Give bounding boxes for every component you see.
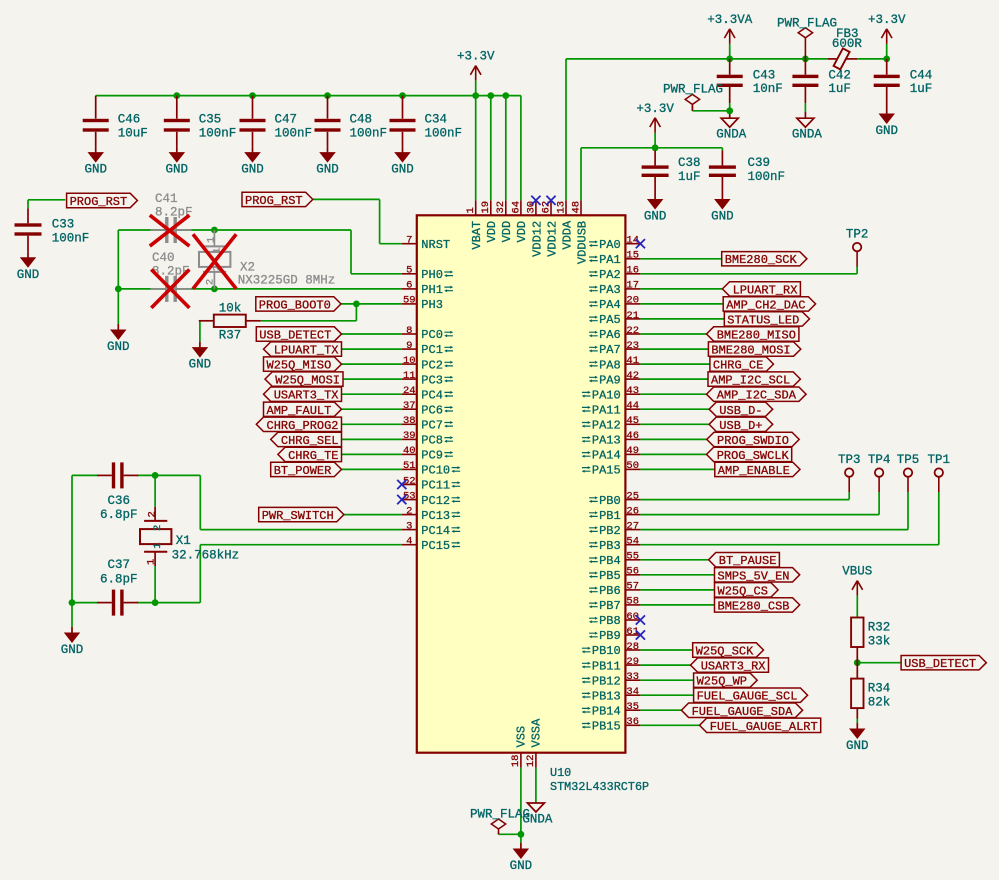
resistor R32 33k bbox=[851, 618, 890, 663]
svg-text:PROG_RST: PROG_RST bbox=[70, 195, 128, 209]
wires right PA labels bbox=[640, 259, 724, 470]
svg-text:VSSA: VSSA bbox=[529, 718, 543, 748]
DNP cross over C40 bbox=[151, 270, 189, 308]
capacitor C34 bbox=[390, 96, 463, 147]
wire PH1 net (crystal lower) bbox=[118, 230, 402, 324]
capacitor C33 bbox=[15, 208, 90, 252]
svg-text:VDD12: VDD12 bbox=[530, 221, 544, 257]
label USB_DETECT bbox=[256, 327, 341, 343]
right pin 43 PA10 bbox=[582, 385, 641, 402]
svg-text:32: 32 bbox=[495, 201, 507, 214]
right pin 42 PA9 bbox=[589, 370, 641, 387]
svg-text:PC12: PC12 bbox=[421, 494, 450, 508]
svg-text:VDDUSB: VDDUSB bbox=[575, 221, 589, 264]
svg-text:C37: C37 bbox=[108, 558, 131, 572]
svg-text:24: 24 bbox=[403, 385, 416, 397]
svg-text:C33: C33 bbox=[52, 218, 75, 232]
right pin 22 PA6 bbox=[589, 325, 641, 342]
ground under C39 bbox=[711, 194, 734, 224]
svg-text:PA10: PA10 bbox=[592, 388, 621, 402]
right pin 41 PA8 bbox=[589, 355, 641, 372]
svg-text:TP2: TP2 bbox=[846, 228, 869, 242]
svg-text:1uF: 1uF bbox=[678, 170, 701, 184]
right pin 26 PB1 bbox=[589, 505, 641, 522]
svg-text:GND: GND bbox=[166, 163, 189, 177]
label BME280_CSB bbox=[715, 598, 800, 614]
svg-text:VBUS: VBUS bbox=[842, 565, 872, 579]
svg-text:PB9: PB9 bbox=[599, 629, 621, 643]
svg-text:NX3225GD 8MHz: NX3225GD 8MHz bbox=[238, 274, 336, 288]
right pin 14 PA0 bbox=[589, 235, 641, 252]
wire PROG_BOOT0 / R37 to PH3 pin 59 bbox=[261, 304, 402, 321]
left pin 5 PH0 bbox=[402, 265, 453, 282]
capacitor C38 bbox=[642, 151, 701, 194]
left pin 38 PC7 bbox=[402, 415, 453, 432]
DNP cross over C41 bbox=[150, 215, 190, 246]
svg-text:7: 7 bbox=[406, 235, 412, 247]
svg-text:BME280_MOSI: BME280_MOSI bbox=[711, 344, 790, 358]
svg-text:PA9: PA9 bbox=[599, 373, 621, 387]
right pin 44 PA11 bbox=[582, 400, 641, 417]
svg-text:PA5: PA5 bbox=[599, 313, 621, 327]
svg-text:STATUS_LED: STATUS_LED bbox=[727, 313, 799, 327]
svg-text:9: 9 bbox=[406, 340, 412, 352]
right pin 17 PA3 bbox=[589, 280, 641, 297]
wire PH0 net (crystal upper) bbox=[118, 230, 402, 274]
svg-text:C40: C40 bbox=[152, 251, 175, 265]
svg-text:57: 57 bbox=[626, 581, 639, 593]
svg-text:C41: C41 bbox=[155, 192, 178, 206]
svg-text:LPUART_TX: LPUART_TX bbox=[274, 344, 339, 358]
svg-text:PA8: PA8 bbox=[599, 358, 621, 372]
right pin 45 PA12 bbox=[582, 415, 641, 432]
ground GNDA under VSSA bbox=[522, 803, 553, 827]
svg-text:PC2: PC2 bbox=[421, 358, 443, 372]
svg-text:C34: C34 bbox=[425, 113, 448, 127]
left pin 24 PC4 bbox=[402, 385, 453, 402]
svg-text:45: 45 bbox=[626, 415, 639, 427]
wire NRST net to C33 and PROG_RST bbox=[28, 200, 65, 209]
svg-text:46: 46 bbox=[626, 430, 639, 442]
label FUEL_GAUGE_ALRT bbox=[700, 718, 821, 734]
label STATUS_LED bbox=[724, 312, 809, 328]
svg-text:TP4: TP4 bbox=[868, 453, 891, 467]
power flag left of C43 bbox=[663, 83, 723, 111]
svg-text:39: 39 bbox=[403, 430, 416, 442]
svg-text:100nF: 100nF bbox=[275, 127, 313, 141]
left pin 53 PC12 bbox=[402, 490, 461, 507]
svg-text:GND: GND bbox=[391, 163, 414, 177]
svg-text:R37: R37 bbox=[219, 329, 242, 343]
wire +3.3VA rail to VDDA pin 13 bbox=[566, 59, 887, 200]
svg-text:100nF: 100nF bbox=[748, 170, 786, 184]
svg-text:42: 42 bbox=[626, 370, 639, 382]
svg-text:U10: U10 bbox=[550, 766, 571, 780]
svg-text:USB_DETECT: USB_DETECT bbox=[904, 657, 976, 671]
svg-text:54: 54 bbox=[626, 536, 639, 548]
svg-text:C35: C35 bbox=[199, 113, 222, 127]
svg-text:FUEL_GAUGE_ALRT: FUEL_GAUGE_ALRT bbox=[710, 720, 818, 734]
svg-text:18: 18 bbox=[510, 755, 522, 768]
wires left GPIO labels to PC pins bbox=[342, 334, 402, 469]
label W25Q_CS bbox=[715, 583, 779, 599]
svg-text:C42: C42 bbox=[828, 69, 851, 83]
svg-text:8: 8 bbox=[406, 325, 412, 337]
svg-text:25: 25 bbox=[626, 490, 639, 502]
svg-text:100nF: 100nF bbox=[52, 232, 90, 246]
svg-text:PC0: PC0 bbox=[421, 328, 443, 342]
svg-text:PC15: PC15 bbox=[421, 539, 450, 553]
top pin 32 VDD bbox=[495, 200, 514, 242]
svg-text:X2: X2 bbox=[240, 261, 255, 275]
svg-text:10k: 10k bbox=[219, 302, 242, 316]
label BME280_MISO bbox=[707, 327, 799, 343]
svg-text:PA15: PA15 bbox=[592, 464, 621, 478]
svg-text:51: 51 bbox=[403, 460, 416, 472]
label BME280_MOSI bbox=[708, 342, 800, 358]
svg-text:PC10: PC10 bbox=[421, 464, 450, 478]
svg-text:PB3: PB3 bbox=[599, 539, 621, 553]
svg-text:56: 56 bbox=[626, 566, 639, 578]
svg-text:PA1: PA1 bbox=[599, 253, 621, 267]
svg-text:10uF: 10uF bbox=[118, 127, 148, 141]
svg-text:PB2: PB2 bbox=[599, 524, 621, 538]
right pin 16 PA2 bbox=[589, 265, 641, 282]
left pin 40 PC9 bbox=[402, 445, 453, 462]
junction PROG_BOOT0 node bbox=[353, 301, 360, 308]
svg-text:C38: C38 bbox=[678, 156, 701, 170]
svg-text:AMP_CH2_DAC: AMP_CH2_DAC bbox=[726, 298, 805, 312]
label CHRG_TE bbox=[278, 447, 342, 463]
capacitor C36 bbox=[97, 462, 138, 522]
svg-text:GND: GND bbox=[875, 124, 898, 138]
svg-text:33k: 33k bbox=[868, 635, 891, 649]
svg-text:VDD12: VDD12 bbox=[545, 221, 559, 257]
label USB_D+ bbox=[709, 417, 773, 433]
svg-text:VDD: VDD bbox=[515, 221, 529, 243]
svg-text:1: 1 bbox=[145, 559, 157, 565]
wire PA2 to TP2 bbox=[640, 266, 857, 274]
IC reference U10 bbox=[550, 766, 571, 780]
svg-text:PB7: PB7 bbox=[599, 599, 621, 613]
ferrite bead FB3 600R bbox=[828, 27, 863, 69]
svg-text:W25Q_WP: W25Q_WP bbox=[697, 675, 747, 689]
no-connect X at PA0 bbox=[636, 239, 645, 248]
label USART3_RX bbox=[691, 658, 769, 674]
power +3.3VA bbox=[707, 13, 753, 59]
label AMP_I2C_SCL bbox=[708, 372, 800, 388]
svg-text:PB15: PB15 bbox=[592, 720, 621, 734]
svg-text:PWR_FLAG: PWR_FLAG bbox=[777, 16, 837, 30]
junctions crystal X2 nets bbox=[115, 227, 218, 293]
no-connect X at VDD12 pin62 bbox=[546, 196, 555, 205]
IC U10 STM32L433RCT6P bbox=[402, 200, 649, 794]
label BT_PAUSE bbox=[709, 553, 780, 569]
svg-text:6.8pF: 6.8pF bbox=[100, 572, 138, 586]
svg-text:PROG_BOOT0: PROG_BOOT0 bbox=[259, 298, 331, 312]
IC body bbox=[417, 215, 626, 752]
wire VBUS divider node to USB_DETECT label bbox=[857, 663, 901, 723]
svg-text:GND: GND bbox=[61, 643, 84, 657]
svg-text:GND: GND bbox=[316, 163, 339, 177]
svg-text:PA13: PA13 bbox=[592, 434, 621, 448]
svg-text:1uF: 1uF bbox=[828, 82, 851, 96]
label PROG_SWDIO bbox=[707, 432, 799, 448]
svg-text:PA2: PA2 bbox=[599, 268, 621, 282]
svg-text:35: 35 bbox=[626, 701, 639, 713]
svg-text:48: 48 bbox=[570, 201, 582, 214]
capacitor C44 bbox=[874, 59, 933, 108]
svg-text:50: 50 bbox=[626, 460, 639, 472]
no-connect X at PC11 bbox=[397, 480, 406, 489]
top pin 13 VDDA bbox=[555, 200, 574, 249]
svg-text:GND: GND bbox=[846, 739, 869, 753]
svg-text:4: 4 bbox=[406, 536, 412, 548]
svg-text:PROG_RST: PROG_RST bbox=[245, 194, 303, 208]
capacitor C43 bbox=[717, 59, 783, 103]
label CHRG_CE bbox=[710, 357, 774, 373]
svg-text:22: 22 bbox=[626, 325, 639, 337]
svg-text:PROG_SWDIO: PROG_SWDIO bbox=[717, 434, 789, 448]
wire PWR_SWITCH to PC13 bbox=[344, 514, 402, 516]
svg-text:6.8pF: 6.8pF bbox=[100, 508, 138, 522]
svg-text:26: 26 bbox=[626, 505, 639, 517]
svg-text:32.768kHz: 32.768kHz bbox=[172, 549, 240, 563]
svg-text:TP3: TP3 bbox=[838, 453, 861, 467]
right pin 58 PB7 bbox=[589, 596, 641, 613]
svg-text:PC13: PC13 bbox=[421, 509, 450, 523]
svg-text:82k: 82k bbox=[868, 696, 891, 710]
testpoint TP1 bbox=[928, 453, 951, 492]
svg-text:VDD: VDD bbox=[485, 221, 499, 243]
svg-text:CHRG_PROG2: CHRG_PROG2 bbox=[267, 419, 339, 433]
wire PROG_RST to NRST pin 7 bbox=[313, 199, 402, 243]
power flag at VSS bbox=[470, 808, 530, 835]
label AMP_FAULT bbox=[264, 402, 342, 418]
label PROG_BOOT0 bbox=[256, 297, 341, 313]
svg-text:R34: R34 bbox=[868, 682, 891, 696]
left pin 4 PC15 bbox=[402, 536, 461, 553]
svg-text:USB_D+: USB_D+ bbox=[719, 419, 762, 433]
svg-text:PB14: PB14 bbox=[592, 705, 621, 719]
crystal X2 NX3225GD (DNP) bbox=[199, 230, 335, 289]
capacitor C40 (DNP) bbox=[151, 251, 192, 302]
svg-text:AMP_ENABLE: AMP_ENABLE bbox=[718, 464, 790, 478]
svg-text:40: 40 bbox=[403, 445, 416, 457]
right pin 56 PB5 bbox=[589, 566, 641, 583]
testpoint TP5 bbox=[897, 453, 920, 492]
wire C42 to GNDA bbox=[804, 103, 806, 118]
wire VSS to GND with PWR_FLAG bbox=[499, 768, 521, 843]
svg-text:PC1: PC1 bbox=[421, 343, 443, 357]
left pin 6 PH1 bbox=[402, 280, 453, 297]
label FUEL_GAUGE_SDA bbox=[681, 703, 802, 719]
ground GNDA under C42 bbox=[792, 118, 823, 142]
svg-text:BT_PAUSE: BT_PAUSE bbox=[719, 554, 777, 568]
svg-text:1: 1 bbox=[152, 542, 164, 548]
svg-text:PWR_FLAG: PWR_FLAG bbox=[663, 83, 723, 97]
svg-text:VSS: VSS bbox=[514, 726, 528, 748]
svg-text:PC7: PC7 bbox=[421, 419, 443, 433]
svg-text:33: 33 bbox=[626, 671, 639, 683]
svg-text:58: 58 bbox=[626, 596, 639, 608]
svg-text:PWR_SWITCH: PWR_SWITCH bbox=[262, 509, 334, 523]
power +3.3V at C38 bbox=[636, 102, 674, 133]
svg-text:10: 10 bbox=[403, 355, 416, 367]
no-connect X at PB9 bbox=[636, 630, 645, 639]
svg-text:PA0: PA0 bbox=[599, 238, 621, 252]
junction C43/PWR_FLAG bbox=[726, 107, 733, 114]
right pin 57 PB6 bbox=[589, 581, 641, 599]
svg-text:USART3_TX: USART3_TX bbox=[274, 389, 339, 403]
left pin 51 PC10 bbox=[402, 460, 461, 477]
ground under X2 net bbox=[107, 324, 130, 354]
svg-text:2: 2 bbox=[152, 525, 164, 531]
left pin 9 PC1 bbox=[402, 340, 453, 357]
svg-text:CHRG_CE: CHRG_CE bbox=[713, 359, 763, 373]
left pin 3 PC14 bbox=[402, 520, 461, 538]
power +3.3V top rail bbox=[457, 50, 495, 96]
left pin 10 PC2 bbox=[402, 355, 453, 372]
capacitor C42 bbox=[792, 59, 851, 103]
svg-text:19: 19 bbox=[480, 201, 492, 214]
top pin 19 VDD bbox=[480, 200, 499, 242]
power +3.3V right bbox=[868, 13, 906, 59]
svg-text:PB4: PB4 bbox=[599, 554, 621, 568]
svg-text:USART3_RX: USART3_RX bbox=[701, 660, 766, 674]
svg-text:59: 59 bbox=[403, 295, 416, 307]
svg-text:VBAT: VBAT bbox=[470, 221, 484, 250]
svg-text:C46: C46 bbox=[118, 113, 141, 127]
svg-text:PC14: PC14 bbox=[421, 524, 450, 538]
testpoint TP4 bbox=[868, 453, 891, 492]
svg-text:VDDA: VDDA bbox=[560, 220, 574, 250]
top pin 48 VDDUSB bbox=[570, 200, 589, 264]
svg-text:BME280_CSB: BME280_CSB bbox=[718, 599, 790, 613]
svg-text:20: 20 bbox=[626, 295, 639, 307]
testpoint TP3 bbox=[838, 453, 861, 492]
svg-text:GND: GND bbox=[189, 358, 212, 372]
svg-text:41: 41 bbox=[626, 355, 639, 367]
label LPUART_RX bbox=[722, 282, 800, 298]
svg-text:PA7: PA7 bbox=[599, 343, 621, 357]
svg-text:36: 36 bbox=[626, 716, 639, 728]
label W25Q_MISO bbox=[264, 357, 342, 373]
label AMP_CH2_DAC bbox=[723, 297, 815, 313]
svg-text:13: 13 bbox=[555, 201, 567, 214]
right pin 54 PB3 bbox=[589, 536, 641, 553]
svg-text:CHRG_SEL: CHRG_SEL bbox=[281, 434, 339, 448]
svg-text:GND: GND bbox=[644, 210, 667, 224]
svg-text:17: 17 bbox=[626, 280, 639, 292]
capacitor C47 bbox=[240, 96, 313, 147]
ground under C38 bbox=[644, 194, 667, 224]
svg-text:38: 38 bbox=[403, 415, 416, 427]
svg-text:34: 34 bbox=[626, 686, 639, 698]
svg-text:6: 6 bbox=[406, 280, 412, 292]
DNP cross over X2 bbox=[193, 234, 236, 289]
label PROG_SWCLK bbox=[707, 447, 792, 463]
svg-text:AMP_I2C_SDA: AMP_I2C_SDA bbox=[717, 389, 797, 403]
wire X1 crystal upper net to PC14 bbox=[72, 475, 402, 529]
ground under C46 bbox=[84, 147, 107, 177]
svg-text:PH3: PH3 bbox=[421, 298, 443, 312]
svg-text:+3.3V: +3.3V bbox=[868, 13, 906, 27]
left pin 52 PC11 bbox=[402, 475, 461, 492]
svg-text:23: 23 bbox=[626, 340, 639, 352]
junctions on +3.3V rail bbox=[173, 92, 509, 99]
svg-text:2: 2 bbox=[146, 511, 158, 517]
svg-text:PC3: PC3 bbox=[421, 373, 443, 387]
wire VDDUSB rail to pin 48 bbox=[581, 133, 722, 201]
svg-text:C43: C43 bbox=[753, 69, 776, 83]
label W25Q_WP bbox=[694, 673, 758, 689]
svg-text:USB_D-: USB_D- bbox=[719, 404, 762, 418]
svg-text:2: 2 bbox=[406, 505, 412, 517]
label PROG_RST right bbox=[242, 192, 313, 208]
svg-text:62: 62 bbox=[540, 201, 552, 214]
wire C43 GNDA net with PWR_FLAG bbox=[692, 103, 729, 118]
capacitor C39 bbox=[709, 151, 785, 194]
label AMP_ENABLE bbox=[715, 462, 800, 478]
svg-text:PC4: PC4 bbox=[421, 388, 443, 402]
power VBUS bbox=[842, 565, 872, 618]
crystal X1 32.768kHz bbox=[140, 507, 239, 566]
svg-text:PROG_SWCLK: PROG_SWCLK bbox=[717, 449, 790, 463]
label CHRG_PROG2 bbox=[256, 417, 341, 433]
right pin 46 PA13 bbox=[582, 430, 641, 447]
svg-text:W25Q_SCK: W25Q_SCK bbox=[696, 645, 754, 659]
svg-text:GND: GND bbox=[107, 340, 130, 354]
svg-text:NRST: NRST bbox=[421, 238, 450, 252]
ground under C47 bbox=[241, 147, 264, 177]
left pin 2 PC13 bbox=[402, 505, 461, 522]
ground under C33 bbox=[17, 252, 40, 282]
junction at C38 / +3.3V node bbox=[652, 144, 659, 151]
svg-text:C39: C39 bbox=[748, 156, 771, 170]
ground under R37 bbox=[189, 342, 212, 372]
svg-text:PA14: PA14 bbox=[592, 449, 621, 463]
ground under C44 bbox=[875, 108, 898, 138]
svg-text:GNDA: GNDA bbox=[522, 813, 553, 827]
svg-text:15: 15 bbox=[626, 250, 639, 262]
svg-text:5: 5 bbox=[406, 265, 412, 277]
right pin 49 PA14 bbox=[582, 445, 641, 462]
svg-text:600R: 600R bbox=[832, 37, 863, 51]
svg-text:PC6: PC6 bbox=[421, 403, 443, 417]
wire +3.3V top rail bbox=[96, 96, 521, 201]
svg-text:PA11: PA11 bbox=[592, 403, 621, 417]
no-connect X at VDD12 pin30 bbox=[531, 196, 540, 205]
svg-text:11: 11 bbox=[403, 370, 416, 382]
svg-text:GND: GND bbox=[84, 163, 107, 177]
svg-text:28: 28 bbox=[626, 641, 639, 653]
svg-text:STM32L433RCT6P: STM32L433RCT6P bbox=[550, 780, 649, 794]
bottom pin 18 VSS bbox=[510, 726, 528, 768]
right pin 50 PA15 bbox=[582, 460, 641, 477]
ground GNDA under C43 bbox=[716, 118, 747, 142]
svg-text:CHRG_TE: CHRG_TE bbox=[288, 449, 338, 463]
capacitor C41 (DNP) bbox=[151, 192, 193, 243]
label USB_D- bbox=[709, 402, 773, 418]
right pin 60 PB8 bbox=[589, 611, 641, 628]
svg-text:GND: GND bbox=[241, 163, 264, 177]
svg-text:GND: GND bbox=[711, 210, 734, 224]
svg-text:W25Q_CS: W25Q_CS bbox=[718, 584, 768, 598]
svg-text:100nF: 100nF bbox=[425, 127, 463, 141]
ground under VSS bbox=[510, 843, 533, 873]
label PROG_RST left bbox=[67, 193, 138, 209]
